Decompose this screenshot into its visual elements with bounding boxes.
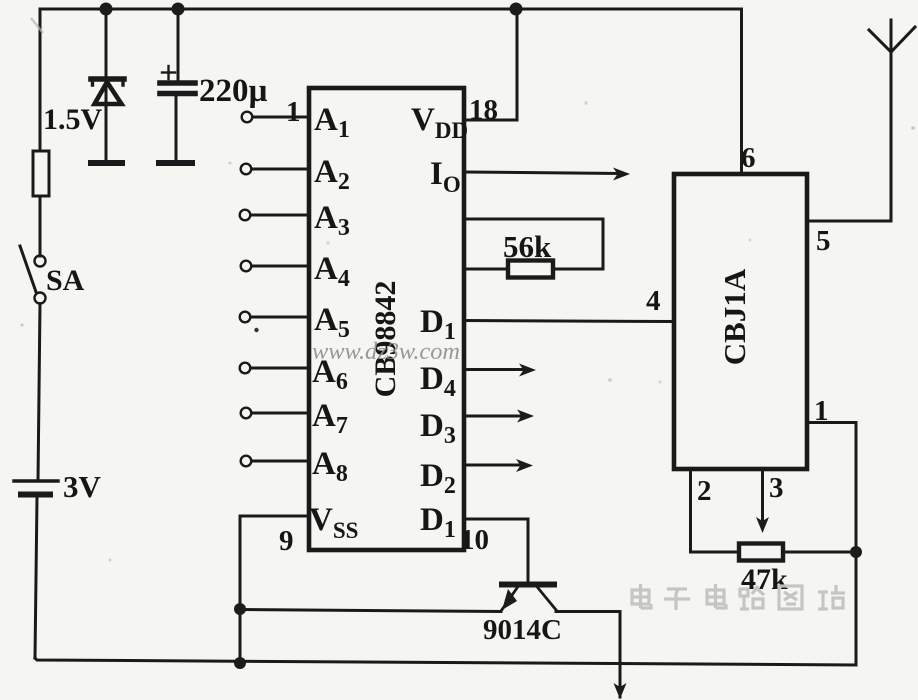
svg-text:1.5V: 1.5V bbox=[43, 103, 103, 136]
svg-text:www.dz3w.com: www.dz3w.com bbox=[312, 339, 460, 365]
svg-text:3: 3 bbox=[769, 472, 784, 504]
svg-text:9014C: 9014C bbox=[483, 614, 562, 646]
svg-text:18: 18 bbox=[469, 94, 498, 126]
svg-text:6: 6 bbox=[741, 142, 756, 174]
svg-text:1: 1 bbox=[814, 395, 829, 427]
svg-text:9: 9 bbox=[279, 525, 294, 557]
svg-text:220µ: 220µ bbox=[199, 73, 268, 109]
svg-text:SA: SA bbox=[46, 264, 85, 297]
svg-text:10: 10 bbox=[460, 524, 489, 556]
svg-text:3V: 3V bbox=[63, 469, 102, 504]
svg-text:1: 1 bbox=[286, 96, 301, 128]
svg-text:2: 2 bbox=[697, 475, 712, 507]
svg-text:CBJ1A: CBJ1A bbox=[717, 268, 752, 365]
svg-text:5: 5 bbox=[816, 225, 831, 257]
svg-text:56k: 56k bbox=[503, 229, 552, 264]
svg-text:4: 4 bbox=[646, 285, 661, 317]
